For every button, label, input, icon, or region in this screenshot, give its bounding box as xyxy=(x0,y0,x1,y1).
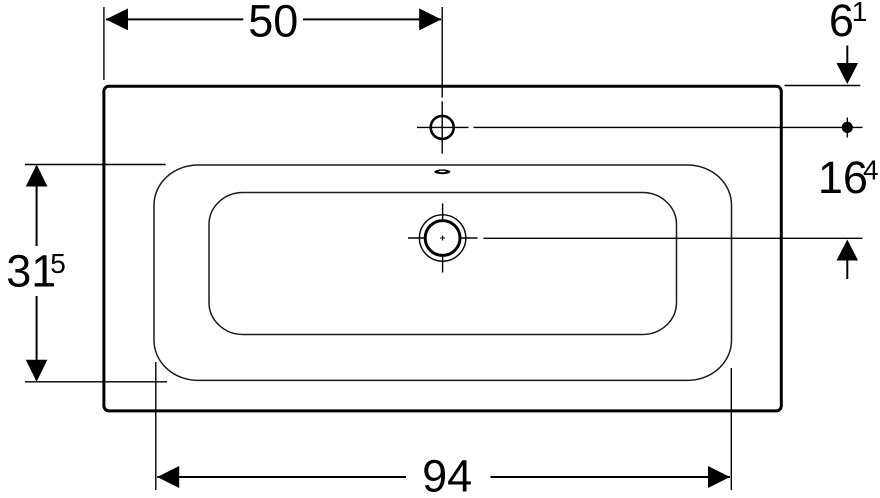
dimension 94 left arrow xyxy=(157,466,179,488)
dimension 31-5 extension line top xyxy=(25,164,166,166)
svg-text:94: 94 xyxy=(422,451,472,498)
basin rim inner outline xyxy=(154,165,732,380)
basin bowl outline xyxy=(209,193,677,335)
drain crosshair vertical xyxy=(442,204,444,273)
drain crosshair horizontal xyxy=(408,237,478,239)
dimension 50 extension line right (tap centre line) xyxy=(441,7,443,98)
overflow slot xyxy=(434,169,450,174)
top edge extension line right xyxy=(785,85,861,87)
svg-text:6: 6 xyxy=(829,0,854,46)
basin outer outline xyxy=(104,86,781,411)
svg-text:5: 5 xyxy=(50,248,66,279)
dimension 50 extension line left xyxy=(103,7,105,80)
drain centre plus xyxy=(440,236,445,241)
reference dot xyxy=(842,122,853,133)
tap hole crosshair vertical xyxy=(441,101,443,153)
drain outer circle xyxy=(419,215,465,261)
svg-text:4: 4 xyxy=(863,155,879,186)
reference dot tick xyxy=(846,118,848,138)
tap centre line to right reference dot xyxy=(474,126,863,128)
svg-text:1: 1 xyxy=(852,0,868,27)
dimension 6-1 arrow shaft xyxy=(846,46,848,67)
svg-text:50: 50 xyxy=(248,0,298,47)
svg-text:31: 31 xyxy=(6,246,56,297)
tap hole circle xyxy=(431,116,454,139)
tap hole crosshair horizontal xyxy=(417,126,469,128)
dimension 6-1 arrow head xyxy=(837,63,859,84)
dimension 31-5 extension line bottom xyxy=(25,381,167,383)
svg-text:16: 16 xyxy=(818,152,868,203)
drain inner circle xyxy=(425,221,460,256)
dimension 50 left arrow xyxy=(106,8,128,30)
dimension 94 right arrow xyxy=(708,466,730,488)
dimension 50 right arrow xyxy=(419,8,441,30)
drain centre line to right xyxy=(484,237,863,239)
dimension 31-5 up arrow xyxy=(26,165,48,187)
dimension 94 extension line right xyxy=(730,368,732,490)
dimension 31-5 down arrow xyxy=(26,360,48,382)
dimension 31-5 line xyxy=(36,166,38,380)
dimension 94 line xyxy=(157,476,730,478)
dimension 16-4 arrow shaft xyxy=(846,261,848,280)
dimension 50 line xyxy=(106,18,441,20)
dimension 16-4 arrow head xyxy=(837,240,859,261)
dimension 94 extension line left xyxy=(155,362,157,490)
